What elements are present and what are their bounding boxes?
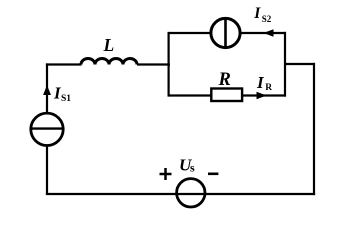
svg-text:S2: S2 (262, 14, 272, 24)
wire: top horizontal, right of inductor (137, 63, 170, 65)
wire: bottom branch, left of resistor (169, 94, 212, 96)
svg-text:R: R (218, 70, 231, 90)
wire: left vertical, top segment (46, 63, 48, 113)
arrow for IS2 (pointing left) (264, 29, 274, 37)
wire: right vertical (313, 63, 315, 195)
label U_s (179, 155, 195, 174)
resistor R (211, 89, 242, 102)
svg-text:R: R (265, 83, 272, 93)
wire: top horizontal, left of inductor (46, 63, 82, 65)
svg-text:s: s (190, 161, 195, 175)
label I_S1 (53, 83, 71, 104)
plus sign of Us (160, 168, 172, 180)
svg-text:S1: S1 (61, 94, 71, 104)
label I_R (256, 73, 272, 93)
minus sign of Us (208, 173, 218, 176)
wire: bottom horizontal (46, 193, 315, 195)
label I_S2 (253, 5, 272, 24)
arrow for IR (pointing right) (257, 92, 267, 100)
wire: bottom branch, right of resistor (242, 94, 286, 96)
wire: parallel block left edge (168, 32, 170, 97)
bar of current source IS2 (224, 18, 227, 47)
svg-text:L: L (103, 35, 115, 55)
wire: parallel block right edge (284, 32, 286, 97)
inductor L (81, 59, 137, 65)
wire: top branch, left of source (169, 32, 211, 34)
voltage source Us (177, 179, 205, 207)
arrow for IS1 (pointing up) (43, 85, 51, 95)
svg-text:I: I (256, 73, 265, 92)
wire: top branch, right of source (241, 32, 287, 34)
current source IS1 (31, 113, 63, 145)
current source IS2 (211, 18, 240, 47)
bar of current source IS1 (31, 127, 62, 129)
wire: left vertical, bottom segment (46, 145, 48, 195)
wire: stub from block to right wire (284, 63, 315, 65)
svg-text:I: I (253, 5, 261, 22)
